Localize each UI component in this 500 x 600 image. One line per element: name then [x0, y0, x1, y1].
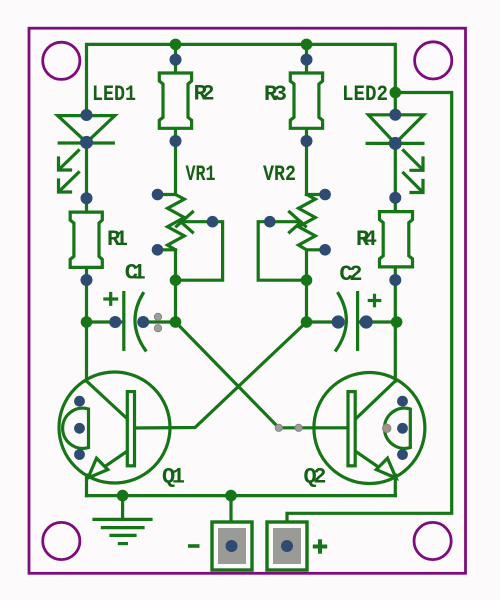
svg-text:R3: R3 [264, 82, 287, 107]
svg-text:Q1: Q1 [162, 465, 185, 490]
svg-text:VR2: VR2 [263, 162, 296, 187]
svg-text:R2: R2 [194, 82, 215, 107]
svg-text:R4: R4 [356, 227, 377, 252]
svg-text:C1: C1 [125, 261, 146, 286]
svg-text:LED2: LED2 [342, 82, 388, 107]
svg-text:R1: R1 [107, 227, 128, 252]
svg-text:Q2: Q2 [304, 465, 327, 490]
svg-text:LED1: LED1 [92, 82, 136, 107]
svg-text:C2: C2 [339, 262, 362, 287]
svg-text:VR1: VR1 [186, 162, 216, 187]
